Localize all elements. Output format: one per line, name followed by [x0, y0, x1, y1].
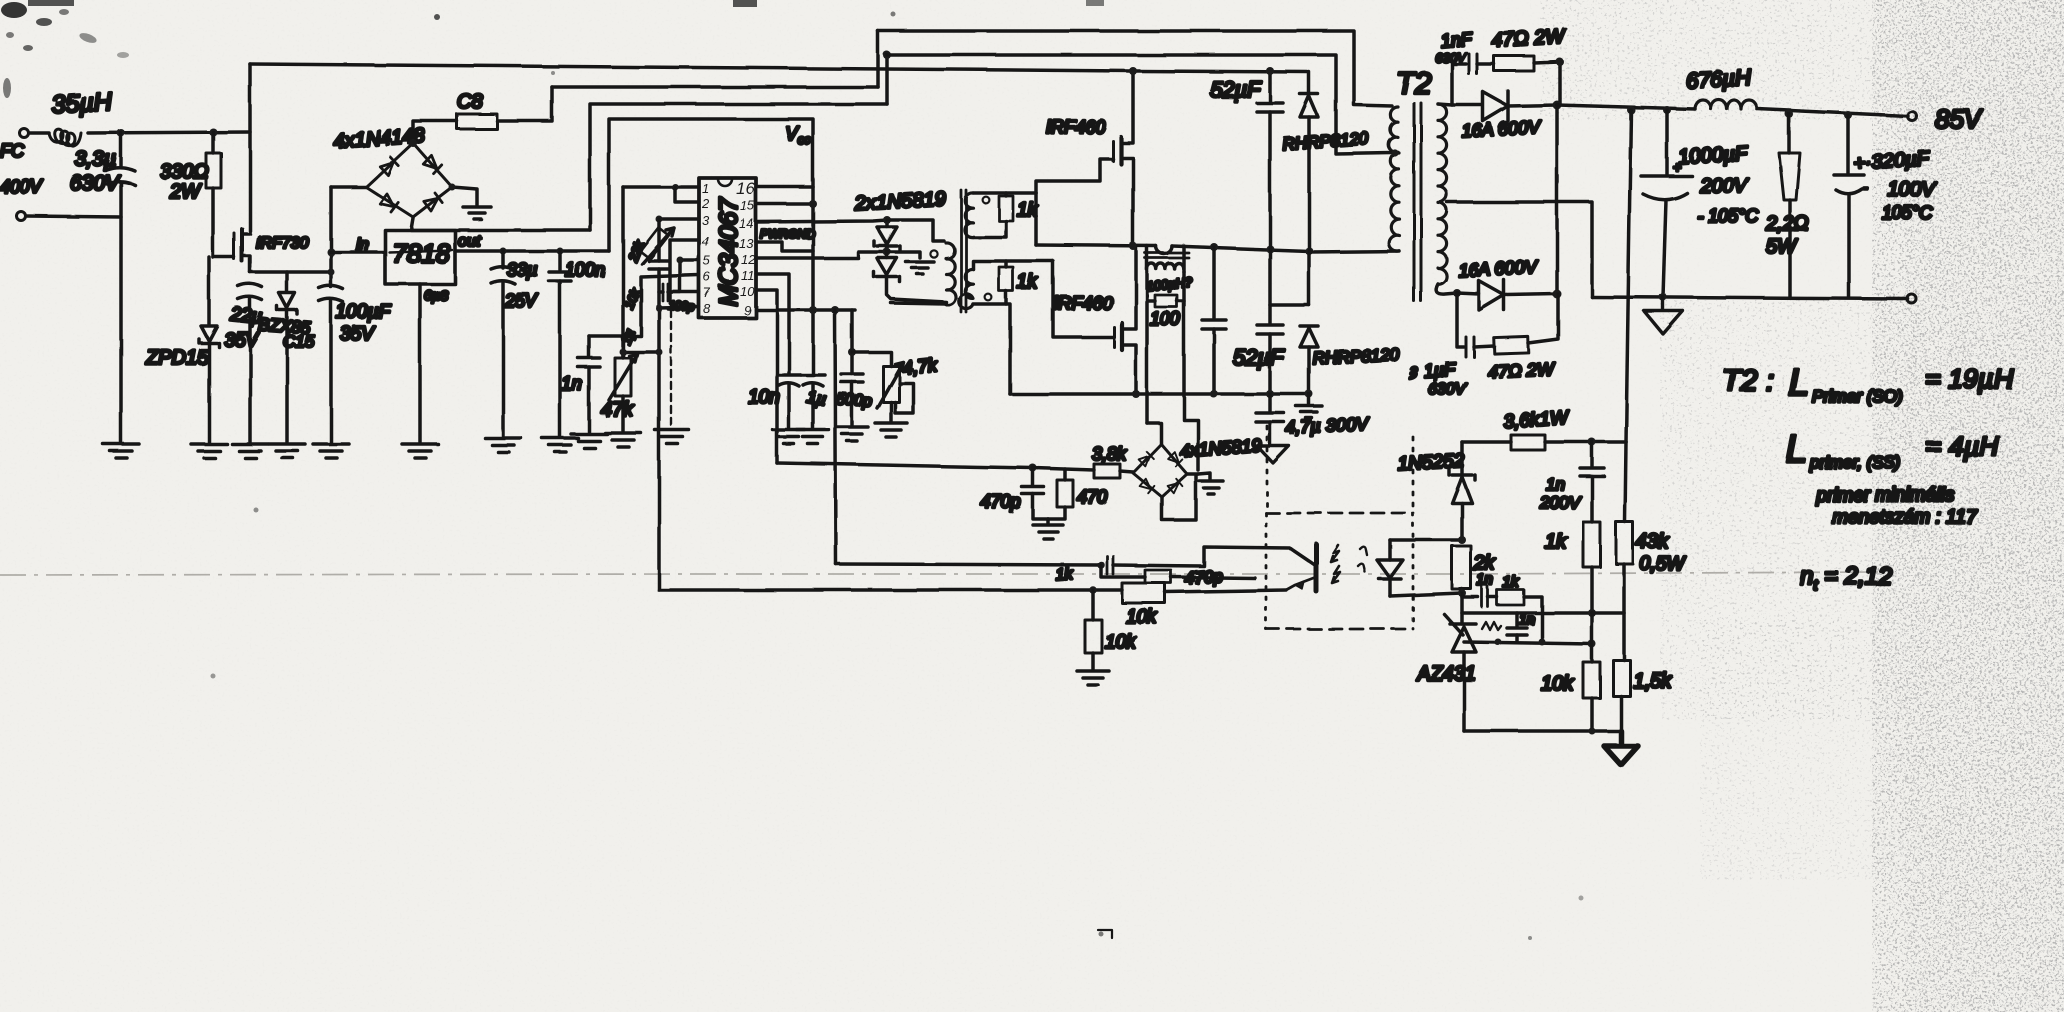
svg-text:11: 11	[741, 268, 755, 283]
optocoupler dashed box	[1266, 513, 1413, 629]
node dot cathode bottom	[1553, 290, 1562, 299]
mosfet Q1 IRF730	[213, 64, 250, 272]
resistor 100	[1147, 272, 1184, 307]
svg-text:IRF730: IRF730	[256, 235, 309, 252]
wire reg top right	[1545, 440, 1626, 444]
wire riser x878	[876, 31, 880, 87]
resistor 1k top	[973, 193, 1013, 237]
resistor 10k lower	[1583, 613, 1600, 731]
ground under 10n	[773, 430, 805, 444]
wire bus y87	[552, 85, 878, 89]
capacitor 52uF bottom	[1257, 249, 1283, 394]
svg-text:500p: 500p	[836, 391, 873, 410]
IC U1 MC34067 body	[699, 178, 756, 318]
T2 secondary winding	[1438, 104, 1447, 284]
wire output top rail	[1557, 105, 1908, 116]
ground at bridge right	[463, 207, 491, 219]
wire bridge top to C8	[413, 121, 457, 143]
ground under x671	[655, 430, 689, 444]
svg-text:10k: 10k	[1126, 607, 1158, 628]
polarity dot sec top	[983, 197, 990, 204]
capacitor 500p	[841, 374, 863, 425]
wire secondary center tap	[1447, 202, 1592, 297]
node dot 470p	[1029, 464, 1037, 472]
polarity dot sec bottom	[985, 294, 992, 301]
ground under 470	[1033, 519, 1063, 539]
pot 47k	[609, 352, 637, 431]
svg-text:4,7k: 4,7k	[901, 354, 938, 378]
wire pin2 tie	[675, 187, 699, 202]
svg-text:85V: 85V	[1935, 104, 1984, 134]
transformer TR1 primary	[946, 243, 956, 305]
resistor 470p branch	[1101, 565, 1255, 583]
wire input top	[29, 131, 49, 135]
wire tank right leg	[1184, 301, 1198, 470]
ground under 500p	[836, 427, 868, 441]
ground under 100n	[542, 438, 578, 452]
svg-text:10k: 10k	[1105, 632, 1137, 653]
svg-text:25V: 25V	[504, 291, 539, 311]
diode RHRP8120 bottom	[1300, 326, 1318, 394]
svg-text:35µH: 35µH	[51, 88, 114, 119]
zigzag small	[1482, 622, 1501, 630]
opto LED	[1377, 540, 1403, 596]
node dot sec bottom	[1453, 289, 1461, 297]
wire cathode bus	[1555, 105, 1559, 294]
wire dashed column x671	[670, 310, 672, 428]
wire reg top	[1462, 440, 1511, 444]
capacitor mid	[1202, 247, 1226, 394]
pin numbers right	[736, 179, 756, 318]
svg-text:1k: 1k	[1055, 566, 1074, 584]
svg-text:primer, (SS): primer, (SS)	[1809, 453, 1901, 472]
node dot src	[328, 269, 335, 276]
svg-text:1n: 1n	[1546, 475, 1565, 494]
wire input bottom	[26, 216, 121, 217]
node dot pin8	[656, 305, 663, 312]
svg-text:52µF: 52µF	[1233, 345, 1285, 370]
scan noise right band	[1872, 0, 2064, 1012]
wire primary bottom out	[1309, 251, 1399, 252]
shunt ref AZ431	[1444, 593, 1476, 731]
svg-text:10n: 10n	[748, 387, 780, 408]
svg-text:6µ8: 6µ8	[424, 287, 448, 303]
opto phototransistor	[1286, 544, 1316, 591]
wire pin15	[756, 202, 813, 206]
node dot rail c	[1785, 110, 1793, 118]
wire drain bus C	[250, 64, 1307, 72]
node dot div b	[1588, 640, 1596, 648]
node dot pin1	[672, 184, 679, 191]
diode D5 16A 600V top	[1483, 91, 1557, 121]
trimmer 22k	[640, 227, 674, 264]
svg-text:14: 14	[739, 216, 753, 231]
capacitor fb series	[1107, 556, 1113, 574]
svg-text:13: 13	[739, 236, 754, 251]
ground under 1n	[571, 434, 607, 448]
svg-text:IRF460: IRF460	[1053, 293, 1112, 313]
node dot rail d	[1844, 111, 1852, 119]
svg-text:200V: 200V	[1539, 493, 1581, 512]
resistor 2k	[1452, 546, 1471, 593]
svg-text:FC: FC	[0, 141, 25, 161]
svg-text:1n: 1n	[1519, 611, 1535, 627]
ground pwr mid	[887, 252, 934, 274]
ground under BZX85	[269, 444, 305, 458]
svg-text:15: 15	[740, 198, 755, 213]
node dot led bottom	[1458, 589, 1466, 597]
ground under 100uF	[313, 444, 349, 458]
svg-text:100V: 100V	[1888, 179, 1936, 201]
svg-text:16: 16	[736, 179, 755, 198]
wire pin10 feedback run	[777, 463, 1033, 468]
ground under 1u	[797, 430, 829, 444]
resistor 1k comp	[1488, 590, 1542, 642]
capacitor 10n	[777, 375, 801, 428]
ground under 10k	[1077, 671, 1109, 685]
svg-text:L: L	[1786, 429, 1807, 471]
node dot x852	[848, 348, 856, 356]
top-left corner scan blotches	[1, 0, 1584, 940]
node dot rail rhrp	[1305, 390, 1313, 398]
svg-text:AZ431: AZ431	[1416, 663, 1476, 685]
wire LED cathode	[1390, 593, 1462, 596]
diode bridge 4x1N5819	[1133, 444, 1187, 497]
wire left column x623	[621, 187, 625, 356]
wire top to drain column	[88, 132, 250, 133]
opto emission squiggles	[1358, 547, 1367, 572]
svg-text:470p: 470p	[1184, 566, 1223, 588]
resistor 3,8k	[1033, 464, 1133, 478]
node dot pin9b	[831, 306, 839, 314]
wire primary bottom	[891, 303, 946, 304]
capacitor 1n	[578, 336, 600, 432]
opto light bolts	[1331, 545, 1339, 562]
capacitor 220p column	[649, 261, 669, 269]
snubber bottom drop	[1457, 293, 1464, 347]
wire x1036 down	[1034, 193, 1038, 245]
wire tank left leg	[1145, 301, 1149, 423]
resistor 10k series	[1122, 583, 1286, 603]
T2 primary upper winding	[1389, 107, 1398, 152]
wire riser x887	[885, 55, 889, 104]
svg-text:3,3µ: 3,3µ	[75, 148, 116, 171]
input terminal top	[20, 129, 29, 138]
capacitor 1n small	[1507, 613, 1527, 642]
node dot pin9a	[809, 306, 817, 314]
svg-text:T2: T2	[1396, 67, 1431, 100]
transformer TR1 core	[961, 190, 966, 312]
svg-text:- 105°C: - 105°C	[1697, 206, 1759, 226]
wire div tie	[1592, 611, 1624, 615]
node dot mid cap	[1210, 243, 1218, 251]
sense line long	[1626, 110, 1631, 442]
wire pin12	[756, 252, 887, 258]
scan noise top right	[1540, 0, 1900, 120]
resistor 2,2R 5W	[1779, 114, 1800, 297]
capacitor 1n 200V	[1580, 442, 1604, 522]
wire pin14	[756, 220, 887, 222]
ground under 22u	[232, 444, 268, 458]
svg-text:1N5252: 1N5252	[1397, 451, 1465, 475]
wire x852 column	[850, 310, 854, 374]
resistor 470	[1048, 469, 1073, 519]
resonant inductor 100uH	[1147, 246, 1184, 272]
output terminal minus	[1908, 295, 1917, 304]
isolation dashed line left	[1266, 426, 1269, 513]
ground triangle output	[1644, 297, 1683, 334]
node dot cathode top	[1553, 101, 1562, 110]
node dot pin3	[656, 216, 663, 223]
capacitor 52uF top	[1257, 71, 1283, 249]
wire diode top rail	[887, 220, 944, 241]
wire sec top terminal	[973, 191, 1036, 195]
node dot fb1	[1097, 561, 1105, 569]
wire fb2 horizontal	[659, 588, 1122, 592]
svg-text:out: out	[458, 233, 481, 250]
svg-text:4: 4	[702, 234, 709, 249]
wire fb1 vertical	[835, 310, 836, 564]
svg-text:105°C: 105°C	[1882, 203, 1933, 223]
node dot primary mid	[1391, 149, 1398, 156]
svg-text:MC34067: MC34067	[715, 197, 743, 306]
diode RHRP8120 top	[1300, 72, 1318, 305]
wire bridge2 bottom loop	[1162, 475, 1196, 520]
svg-text:1: 1	[702, 181, 709, 196]
svg-text:35V: 35V	[340, 324, 376, 345]
wire pin10	[756, 290, 777, 463]
ground triangle 4,7u	[1257, 446, 1289, 463]
node dot drain top	[1129, 67, 1137, 75]
node dot rail q3	[1132, 390, 1140, 398]
node dot reg top	[1588, 438, 1596, 446]
svg-text:1n: 1n	[561, 374, 582, 395]
wire column x659	[657, 219, 661, 590]
wire 7818 out rail	[455, 249, 609, 253]
svg-text:5: 5	[703, 253, 711, 268]
svg-text:3,8k: 3,8k	[1092, 444, 1127, 464]
node dot pin15	[809, 200, 817, 208]
svg-text:= 19µH: = 19µH	[1925, 364, 2014, 394]
node dot bridge top	[409, 139, 417, 147]
isolation dashed line right	[1412, 437, 1415, 513]
svg-text:43k: 43k	[1636, 531, 1669, 553]
svg-text:1nF: 1nF	[1440, 29, 1473, 51]
polarity dot primary	[930, 250, 937, 257]
node dot bot a	[1589, 728, 1596, 735]
node dot comp a	[1495, 639, 1502, 646]
node dot rail a	[1627, 106, 1635, 114]
wire bus B	[887, 55, 1392, 154]
node dot fb2	[1089, 586, 1097, 594]
wire bridge2 right	[1187, 472, 1198, 476]
svg-text:47k: 47k	[601, 399, 634, 421]
capacitor 1n comp	[1462, 587, 1488, 607]
wire source node	[250, 270, 331, 274]
svg-text:10k: 10k	[1541, 673, 1574, 695]
node dot in	[327, 248, 335, 256]
node dot tie1	[620, 349, 627, 356]
inductor L1 35uH	[49, 129, 81, 146]
wire bridge left	[331, 185, 366, 189]
svg-text:L: L	[1788, 362, 1809, 404]
capacitor 1u vcc	[801, 375, 825, 428]
capacitor 100n	[549, 251, 571, 436]
svg-text:47Ω 2W: 47Ω 2W	[1491, 26, 1567, 52]
wire pin7	[659, 290, 699, 294]
wire pin4	[670, 240, 699, 300]
input terminal bottom	[17, 212, 26, 221]
capacitor 470p	[1022, 468, 1048, 519]
svg-text:0,5W: 0,5W	[1640, 554, 1686, 575]
wire secondary bottom	[1436, 284, 1457, 294]
zener BZX85 C15	[277, 272, 297, 442]
svg-text:630V: 630V	[70, 172, 121, 195]
svg-text:1µ: 1µ	[805, 387, 827, 409]
node dot rail b	[1663, 106, 1671, 114]
capacitor 100uF 35V	[319, 187, 343, 442]
mosfet Q3 IRF460 bottom	[1114, 246, 1136, 394]
node dot bridge right	[449, 184, 456, 191]
svg-text:6: 6	[703, 269, 711, 284]
wire fb1 to collector	[1113, 547, 1315, 566]
svg-text:47Ω 2W: 47Ω 2W	[1487, 358, 1556, 382]
resonant inductor 100uH core	[1145, 253, 1189, 258]
capacitor 1uF 630V bottom	[1466, 337, 1474, 357]
output terminal plus	[1908, 112, 1917, 121]
wire vcc riser	[609, 119, 813, 374]
capacitor 100p	[663, 284, 668, 301]
transformer TR1 secondary bottom	[959, 269, 973, 309]
node dot diode top	[883, 216, 891, 224]
ground under 4,7k	[875, 423, 907, 437]
svg-text:100n: 100n	[565, 260, 605, 280]
svg-text:2: 2	[701, 196, 710, 211]
node dot div	[1588, 609, 1596, 617]
wire C8 to riser	[497, 87, 552, 121]
capacitor 33u 25V	[491, 251, 515, 436]
wire ref line	[1462, 611, 1592, 615]
node dot y55	[883, 51, 891, 59]
node dot brail a	[1659, 293, 1667, 301]
node dot tie2	[656, 349, 663, 356]
T2 primary lower winding	[1389, 153, 1399, 251]
svg-text:630V: 630V	[1428, 381, 1467, 398]
node dot B	[209, 128, 217, 136]
node dot mid src	[1129, 242, 1137, 250]
wire comp bottom	[1464, 642, 1592, 644]
node dot mid rhrp	[1305, 247, 1313, 255]
wire y231 link	[411, 218, 590, 230]
svg-text:IRF460: IRF460	[1046, 117, 1105, 137]
wire pin9	[756, 308, 855, 312]
resistor 47R 2W top	[1477, 56, 1560, 105]
svg-text:5W: 5W	[1766, 236, 1798, 258]
wire pin13	[756, 242, 813, 251]
resistor 1k div	[1583, 522, 1600, 613]
capacitor 1000uF 200V	[1641, 110, 1692, 297]
wire bus A top	[878, 31, 1392, 106]
wire pin11	[756, 274, 789, 374]
diode bridge 4x1N4148	[366, 143, 452, 217]
svg-text:16A 600V: 16A 600V	[1461, 117, 1542, 141]
svg-text:200V: 200V	[1699, 175, 1748, 197]
wire pin5	[671, 260, 699, 292]
ground small under rail	[1296, 394, 1322, 418]
resistor 3,6k 1W	[1511, 435, 1545, 450]
ground triangle reg	[1604, 731, 1638, 765]
wire pin6	[589, 275, 699, 336]
svg-text:8: 8	[703, 301, 711, 316]
svg-text:= 4µH: = 4µH	[1925, 431, 1999, 461]
wire fb1 horizontal	[836, 564, 1101, 565]
wire pin16	[756, 185, 813, 189]
wire gate link top	[1036, 159, 1113, 193]
transformer T2 core	[1414, 103, 1421, 301]
node dot mid diodes	[883, 248, 891, 256]
svg-text:12: 12	[741, 252, 756, 267]
schottky D bottom 1N5819	[874, 252, 946, 302]
inductor 676uH	[1695, 100, 1757, 109]
node dot led top	[1458, 536, 1466, 544]
svg-text:33µ: 33µ	[507, 260, 537, 280]
wire pin3	[659, 217, 699, 221]
capacitor 1nF 630V top	[1469, 54, 1477, 74]
wire anode bottom	[1464, 729, 1621, 733]
node dot rail cap	[1210, 390, 1218, 398]
svg-text:330Ω: 330Ω	[160, 161, 209, 183]
wire LED anode	[1390, 538, 1462, 542]
svg-text:3: 3	[702, 213, 710, 228]
wire sec bottom to rail	[1006, 304, 1010, 394]
wire bridge2 top	[1147, 423, 1161, 444]
svg-text:1,5k: 1,5k	[1633, 670, 1672, 692]
svg-text:100: 100	[1150, 309, 1180, 329]
pin numbers left	[701, 181, 711, 316]
svg-text:7: 7	[703, 285, 711, 300]
node dot snub top	[1556, 58, 1564, 66]
mosfet Q2 IRF460 top	[1113, 72, 1133, 246]
resistor 1,5k	[1613, 660, 1630, 731]
resistor 10k shunt	[1085, 590, 1102, 669]
svg-text:1µF: 1µF	[1423, 359, 1456, 381]
zener ZPD15	[199, 257, 219, 442]
svg-text:menetszám : 117: menetszám : 117	[1832, 507, 1978, 528]
svg-text:2,2Ω: 2,2Ω	[1765, 213, 1809, 235]
wire 52u-rhrp bottom tie	[1270, 303, 1309, 307]
wire pin1	[623, 185, 699, 189]
svg-text:T2 :: T2 :	[1722, 364, 1774, 397]
svg-text:400V: 400V	[0, 177, 44, 197]
ground under 3,3u	[103, 444, 139, 458]
trimmer 4,7k	[852, 352, 913, 421]
wire bottom rail	[1010, 392, 1309, 396]
node dot comp b	[1539, 639, 1546, 646]
wire tie x623-x659	[623, 350, 659, 354]
snubber top riser	[1452, 64, 1466, 105]
svg-text:primer minimális: primer minimális	[1815, 485, 1955, 506]
svg-text:C8: C8	[457, 91, 483, 113]
node dot out2	[557, 248, 564, 255]
resistor C8	[457, 114, 497, 129]
wire output bottom rail	[1592, 297, 1908, 299]
svg-text:470p: 470p	[981, 492, 1021, 512]
ground under 7818	[402, 444, 438, 458]
node dot A	[117, 129, 125, 137]
wire sec bottom top-terminal	[973, 261, 1053, 269]
svg-text:ZPD15: ZPD15	[145, 347, 209, 369]
wire gate link bottom	[1053, 261, 1114, 337]
